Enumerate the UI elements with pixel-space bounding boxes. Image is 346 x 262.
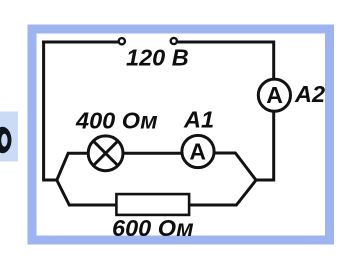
svg-text:A: A xyxy=(189,138,206,164)
wire middle-left xyxy=(67,152,89,155)
wire diagonal right lower xyxy=(236,180,257,206)
background letter о fragment xyxy=(0,127,12,153)
terminal T1 xyxy=(119,38,125,44)
wire right vertical lower xyxy=(272,112,275,182)
background text selection highlight xyxy=(0,112,18,162)
wire diagonal left lower xyxy=(57,180,70,206)
wire middle-center xyxy=(123,152,182,155)
svg-text:A: A xyxy=(266,82,283,108)
wire diagonal left upper xyxy=(57,153,69,181)
wire left vertical xyxy=(42,41,45,181)
wire right vertical upper xyxy=(272,41,275,80)
ammeter A2 xyxy=(258,79,290,111)
lamp EL1 xyxy=(88,136,123,171)
wire left junction stub xyxy=(42,179,58,182)
wire diagonal right upper xyxy=(235,153,257,181)
svg-text:A2: A2 xyxy=(294,81,325,107)
svg-text:400 Ом: 400 Ом xyxy=(75,108,158,134)
wire bottom-right xyxy=(188,204,237,207)
terminal T2 xyxy=(171,38,177,44)
svg-text:600 Ом: 600 Ом xyxy=(112,215,194,241)
svg-text:A1: A1 xyxy=(183,106,214,132)
ammeter A1 xyxy=(182,135,214,167)
wire top-left xyxy=(42,41,118,44)
wire bottom-left xyxy=(68,204,117,207)
resistor R1 xyxy=(116,194,189,215)
wire top-right xyxy=(178,41,276,44)
wire right junction stub xyxy=(256,179,276,182)
svg-text:120 В: 120 В xyxy=(126,44,189,70)
blue picture frame xyxy=(32,29,330,240)
wire middle-right xyxy=(214,152,236,155)
